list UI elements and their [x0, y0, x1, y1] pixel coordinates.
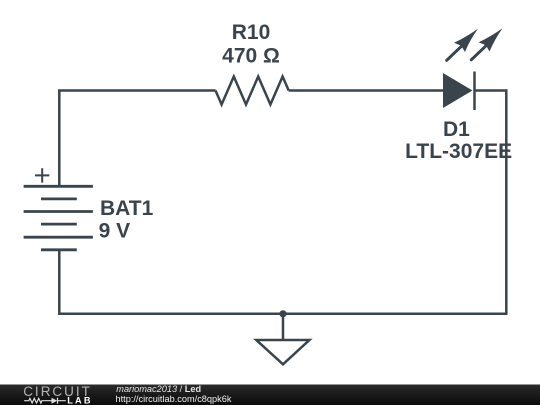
svg-text:LTL-307EE: LTL-307EE	[405, 140, 512, 163]
svg-text:9 V: 9 V	[99, 220, 131, 243]
svg-text:R10: R10	[232, 21, 271, 44]
battery BAT1 plus sign	[35, 168, 49, 182]
LED D1 triangle (anode)	[443, 73, 473, 108]
LED D1 emission arrow 2	[471, 28, 502, 60]
footer bar	[0, 385, 540, 405]
svg-text:D1: D1	[443, 118, 470, 141]
wire: LED cathode to top-right corner down to bottom-right corner along bottom to bottom-left corner up to battery bottom	[59, 91, 506, 314]
ground stem wire	[282, 314, 285, 339]
LED D1 cathode bar	[473, 72, 476, 111]
logo schematic wire with resistor and diode	[24, 398, 66, 404]
wire: resistor right lead to LED anode	[289, 89, 443, 92]
svg-text:mariomac2013 / Led: mariomac2013 / Led	[116, 384, 201, 394]
resistor R10	[216, 77, 289, 105]
junction node dot	[279, 310, 286, 317]
wire: battery top to top-left corner to resistor left lead	[59, 91, 215, 187]
ground triangle	[256, 340, 309, 364]
svg-text:470 Ω: 470 Ω	[222, 45, 280, 68]
svg-text:http://circuitlab.com/c8qpk6k: http://circuitlab.com/c8qpk6k	[116, 394, 232, 404]
LED D1 emission arrow 1	[447, 29, 478, 61]
battery BAT1 plates	[24, 186, 93, 250]
svg-text:BAT1: BAT1	[100, 197, 154, 220]
svg-text:LAB: LAB	[67, 396, 92, 405]
